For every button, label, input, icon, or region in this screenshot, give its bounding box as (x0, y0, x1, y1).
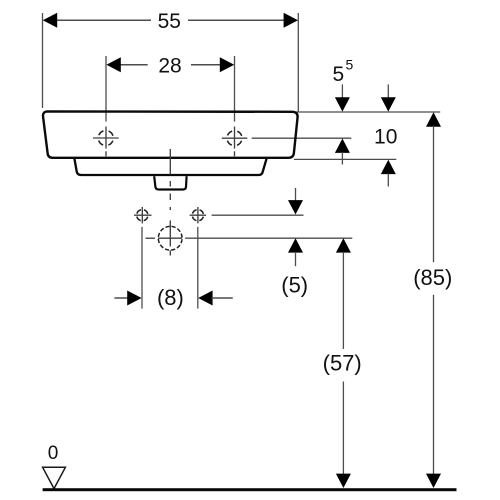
right tap hole center line horizontal (222, 137, 248, 139)
svg-text:(8): (8) (157, 285, 184, 310)
ref line basin top level (296, 111, 440, 113)
washbasin tier3 trap cover (154, 176, 186, 189)
svg-text:(5): (5) (281, 272, 308, 297)
dim (85) up arrowhead (426, 112, 441, 126)
floor line (43, 488, 457, 491)
dim 55 line left segment (55, 19, 151, 21)
drain center line horizontal dashes (146, 237, 183, 239)
ref line basin bottom rim level (294, 158, 396, 160)
dim (8) left extension line (141, 227, 143, 309)
dim 5.5 top arrow tail (341, 84, 343, 98)
left tap hole dashed circle (98, 131, 113, 146)
dim 10 bottom arrowhead up (381, 160, 396, 174)
right tap hole dashed circle (227, 131, 242, 146)
left fixing hole dashed circle (137, 210, 148, 221)
dim 55 left extension line (42, 13, 44, 108)
ref line fixing hole level (212, 214, 304, 216)
dim 28 arrowhead left (106, 57, 120, 72)
dim 10 top arrowhead down (381, 97, 396, 111)
dim 28 right extension line (234, 56, 236, 122)
dim 55 right extension line (297, 13, 299, 113)
dim (8) right tail (212, 297, 233, 299)
svg-text:0: 0 (48, 443, 59, 464)
dim (8) right arrowhead pointing left (198, 291, 212, 306)
dim 5.5 bottom arrow tail (341, 152, 343, 165)
svg-text:(57): (57) (323, 350, 362, 375)
drain outlet dashed circle (158, 226, 182, 250)
dim (5) up arrowhead (288, 238, 303, 252)
right fixing hole dashed circle (192, 210, 203, 221)
dim (8) left tail (114, 297, 128, 299)
dim 55 line right segment (188, 19, 285, 21)
dim 55 arrowhead left (43, 13, 57, 28)
dim (57) down arrowhead at floor (336, 474, 351, 488)
left tap hole center line horizontal (93, 137, 119, 139)
ref line drain level (185, 237, 352, 239)
svg-text:(85): (85) (413, 265, 452, 290)
dim 28 left extension line (105, 56, 107, 122)
svg-text:28: 28 (158, 54, 181, 77)
dim (57) line upper segment (342, 252, 344, 349)
svg-text:55: 55 (158, 10, 181, 33)
dim 55 arrowhead right (284, 13, 298, 28)
dim 5.5 top arrowhead down (335, 97, 350, 111)
dim 28 line right segment (191, 64, 221, 66)
dim 28 arrowhead right (220, 57, 234, 72)
dim (5) down arrow tail (295, 188, 297, 201)
dim (8) left arrowhead pointing right (127, 291, 141, 306)
dim (85) down arrowhead at floor (426, 474, 441, 488)
dim 5.5 bottom arrowhead up (335, 139, 350, 153)
left tap hole center line vertical (105, 127, 107, 157)
dim (85) line upper segment (433, 126, 435, 262)
dim (57) line lower segment (342, 382, 344, 475)
dim 10 bottom arrow tail (387, 174, 389, 187)
dim (5) up arrow tail (295, 252, 297, 266)
left fixing hole cross (134, 207, 152, 223)
right tap hole center line vertical (234, 127, 236, 157)
svg-text:5: 5 (333, 63, 345, 86)
right fixing hole cross (190, 207, 206, 223)
datum triangle (43, 467, 66, 488)
drain center line vertical dash-dot (169, 149, 171, 256)
dim (8) right extension line (197, 227, 199, 309)
svg-text:5: 5 (346, 57, 354, 73)
dim 10 top arrow tail (387, 84, 389, 98)
ref line tap hole level (252, 137, 352, 139)
dim (85) line lower segment (433, 295, 435, 475)
dim (57) up arrowhead (336, 238, 351, 252)
dim (5) down arrowhead (288, 200, 303, 214)
svg-text:10: 10 (374, 125, 397, 148)
dim 28 line left segment (119, 64, 148, 66)
washbasin body tier1 outline (43, 111, 298, 157)
washbasin tier2 apron (74, 159, 266, 176)
